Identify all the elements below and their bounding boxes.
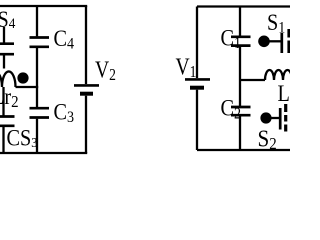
wire: top rail to capacitor C1	[239, 7, 241, 36]
wire: left circuit top rail	[0, 5, 87, 7]
wire: winding valley down to capacitor CS3	[2, 87, 4, 116]
battery V2 long plate	[74, 84, 99, 87]
coupled inductor Lr2 winding (cut off at left edge)	[0, 71, 16, 87]
wire: left edge lower (battery V1 to bottom rail)	[196, 90, 198, 150]
capacitor C4 bottom plate	[30, 45, 50, 48]
capacitor CS3 top plate	[0, 115, 15, 118]
capacitor C2 top plate	[231, 106, 251, 109]
switch S2 channel bar segments (cut off)	[284, 104, 287, 112]
switch S1 channel bar segments (cut off)	[287, 29, 290, 38]
polarity dot of Lr2	[17, 72, 28, 83]
wire: middle column C4 to C3	[36, 48, 38, 107]
wire: drop from top rail at switch S4 branch	[3, 27, 5, 43]
wire: left circuit right edge upper (into battery V2)	[85, 6, 87, 84]
wire: column C2 to bottom rail	[239, 116, 241, 150]
capacitor C1 top plate	[231, 35, 251, 38]
switch S2 gate node dot	[260, 112, 271, 123]
wire: winding baseline to middle column	[16, 86, 39, 88]
switch S1 gate node dot	[258, 36, 270, 48]
battery V2 short plate	[80, 92, 93, 96]
wire: below CS4 capacitor	[3, 56, 5, 69]
switch S2 gate bar	[279, 108, 282, 130]
capacitor C3 bottom plate	[30, 116, 50, 119]
wire: right circuit top rail	[197, 5, 290, 7]
capacitor CS4 bottom plate	[0, 53, 14, 56]
wire: right circuit bottom rail	[197, 149, 290, 151]
capacitor C4 top plate	[30, 36, 50, 39]
battery V1 short plate	[190, 86, 204, 90]
switch S1 gate bar	[280, 33, 283, 53]
capacitor C2 bottom plate	[231, 114, 251, 117]
wire: S2 dot to gate bar	[271, 117, 279, 119]
capacitor CS3 bottom plate	[0, 124, 15, 127]
svg-text:L: L	[278, 81, 290, 106]
wire: column C1 to C2	[239, 47, 241, 106]
wire: left circuit right edge lower (battery V2 to bottom rail)	[85, 96, 87, 153]
capacitor C1 bottom plate	[231, 44, 251, 47]
wire: middle column top rail to C4	[36, 6, 38, 36]
capacitor CS4 top plate	[0, 42, 14, 45]
wire: middle column C3 to bottom rail	[36, 119, 38, 153]
battery V1 long plate	[185, 78, 210, 81]
wire: S1 dot to gate bar	[269, 40, 281, 42]
wire: left circuit bottom rail	[0, 152, 87, 154]
inductor L winding (cut off at right edge)	[265, 70, 292, 80]
capacitor C3 top plate	[30, 107, 50, 110]
wire: below capacitor CS3 to bottom rail	[2, 127, 4, 153]
wire: right circuit left edge upper (into battery V1)	[196, 7, 198, 79]
wire: cap midpoint to inductor L	[240, 79, 265, 81]
